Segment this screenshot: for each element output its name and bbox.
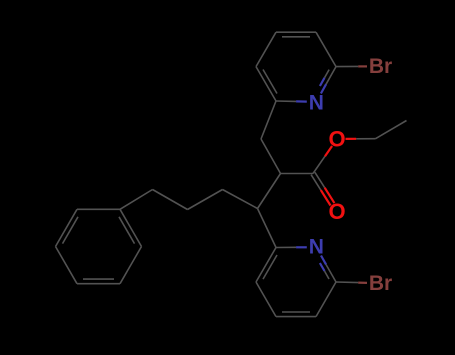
CH2 bridge to top ring xyxy=(261,101,281,174)
nitrogen N (bottom ring) xyxy=(309,236,324,259)
top pyridine ring xyxy=(256,32,336,101)
bond C2-Br (top) xyxy=(336,65,367,67)
svg-text:O: O xyxy=(328,127,345,152)
carbonyl oxygen O xyxy=(328,199,345,224)
CH2-CH3 ethyl bond xyxy=(376,121,407,139)
nitrogen N (top ring) xyxy=(309,91,324,114)
bond to ester carbonyl xyxy=(281,173,314,175)
svg-text:Br: Br xyxy=(369,272,392,295)
CH bridge to bottom ring xyxy=(258,174,281,248)
svg-text:N: N xyxy=(309,236,324,259)
svg-text:Br: Br xyxy=(369,55,392,78)
svg-text:O: O xyxy=(328,199,345,224)
bromine Br (bottom) xyxy=(369,272,392,295)
bottom pyridine ring xyxy=(256,247,336,316)
ester C-O bond xyxy=(313,146,332,174)
bond C2-Br (bottom) xyxy=(336,281,367,284)
ester oxygen O xyxy=(328,127,345,152)
carbonyl C=O double bond xyxy=(311,172,334,205)
O-CH2 bond xyxy=(346,138,376,140)
bromine Br (top) xyxy=(369,55,392,78)
butyl chain xyxy=(120,190,258,210)
svg-text:N: N xyxy=(309,91,324,114)
phenyl ring xyxy=(56,209,142,283)
